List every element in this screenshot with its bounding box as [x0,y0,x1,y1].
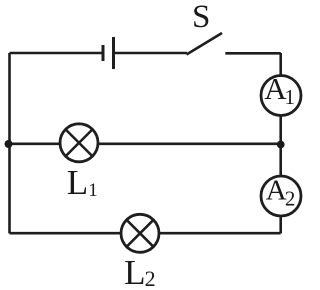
svg-text:L: L [124,253,145,290]
svg-text:A: A [266,174,287,206]
svg-text:1: 1 [88,180,98,201]
svg-text:L: L [67,163,88,202]
svg-text:2: 2 [285,187,296,211]
svg-text:S: S [192,0,210,35]
svg-text:1: 1 [285,85,296,109]
svg-text:2: 2 [145,266,156,290]
